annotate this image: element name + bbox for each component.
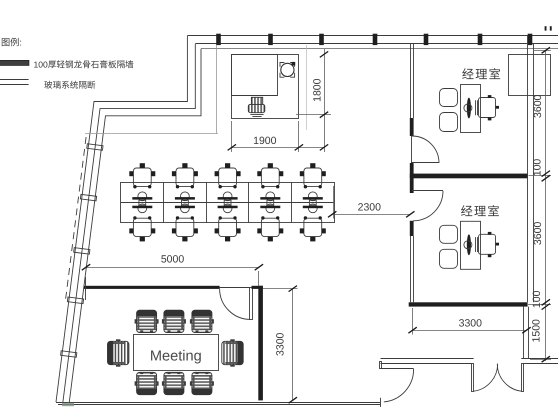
svg-text:3300: 3300: [459, 318, 483, 330]
svg-text:经理室: 经理室: [462, 68, 502, 82]
svg-text:玻璃系统隔断: 玻璃系统隔断: [44, 80, 96, 90]
svg-text:1500: 1500: [531, 319, 543, 343]
svg-text:1900: 1900: [253, 135, 277, 147]
svg-text:3300: 3300: [274, 332, 286, 356]
svg-text:100厚轻钢龙骨石膏板隔墙: 100厚轻钢龙骨石膏板隔墙: [34, 59, 135, 69]
svg-text:图例:: 图例:: [1, 38, 22, 48]
svg-text:3600: 3600: [532, 222, 544, 246]
svg-text:1800: 1800: [311, 78, 323, 102]
svg-text:3600: 3600: [532, 94, 544, 118]
svg-text:经理室: 经理室: [461, 204, 501, 218]
svg-text:100: 100: [531, 290, 543, 308]
svg-text:100: 100: [532, 159, 544, 177]
svg-text:5000: 5000: [161, 253, 185, 265]
svg-text:Meeting: Meeting: [150, 349, 202, 365]
svg-text:2300: 2300: [358, 202, 382, 214]
